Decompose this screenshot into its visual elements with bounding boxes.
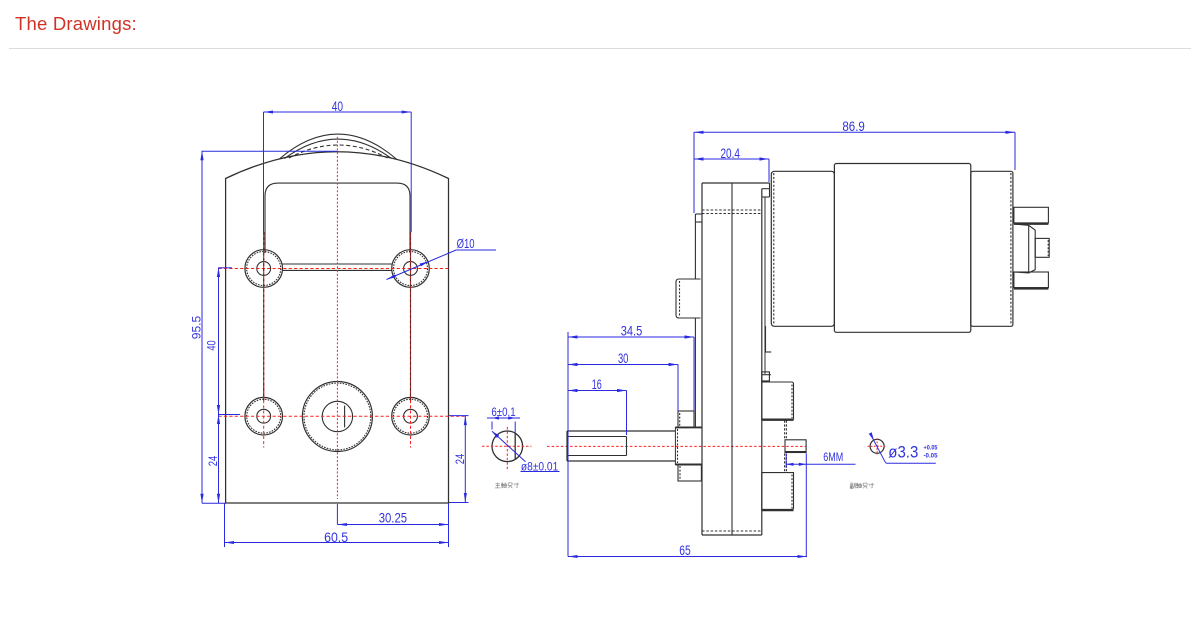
svg-text:16: 16 (592, 377, 602, 392)
svg-text:-0.05: -0.05 (924, 452, 938, 459)
svg-text:40: 40 (206, 340, 218, 350)
svg-text:65: 65 (679, 543, 691, 558)
svg-text:40: 40 (332, 99, 343, 114)
svg-text:Ø10: Ø10 (457, 236, 475, 251)
svg-text:ø3.3: ø3.3 (888, 443, 918, 462)
svg-text:60.5: 60.5 (324, 530, 348, 545)
svg-text:24: 24 (208, 455, 220, 466)
svg-text:30: 30 (618, 351, 629, 366)
svg-text:24: 24 (455, 453, 467, 464)
svg-text:6±0.1: 6±0.1 (491, 407, 515, 419)
svg-text:86.9: 86.9 (842, 119, 865, 134)
svg-text:+0.05: +0.05 (924, 444, 938, 451)
svg-text:34.5: 34.5 (621, 324, 643, 339)
svg-text:ø8±0.01: ø8±0.01 (521, 462, 558, 474)
svg-text:95.5: 95.5 (192, 316, 204, 339)
svg-text:30.25: 30.25 (379, 511, 407, 526)
svg-text:6MM: 6MM (823, 452, 843, 464)
svg-text:20.4: 20.4 (720, 146, 740, 161)
